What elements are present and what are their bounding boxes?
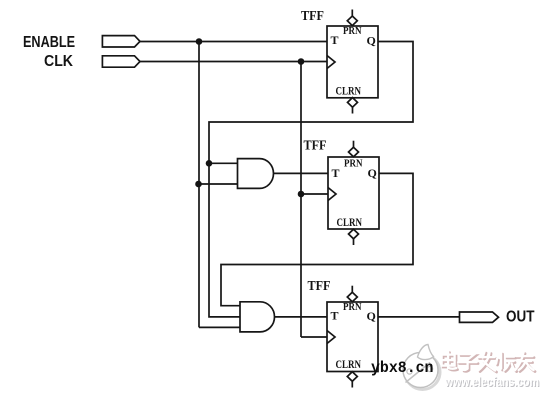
and-gate AND1	[238, 159, 274, 189]
U1 CLRN pin stub	[352, 107, 354, 113]
junction ENABLE/AND1	[195, 181, 202, 188]
wire Q2 feedback: right, down, left, down to AND2 upper input	[221, 173, 413, 305]
U2 PRN pin stub	[353, 141, 355, 148]
wire ENABLE branch to AND2 lower input	[199, 326, 240, 328]
U1 CLRN pin diamond	[348, 98, 358, 108]
svg-text:ENABLE: ENABLE	[23, 34, 75, 51]
svg-text:PRN: PRN	[343, 26, 362, 37]
svg-text:T: T	[331, 33, 339, 47]
svg-text:www.elecfans.com: www.elecfans.com	[444, 374, 539, 389]
svg-text:Q: Q	[368, 166, 377, 180]
U2 CLRN pin stub	[353, 239, 355, 245]
svg-text:Q: Q	[367, 34, 376, 48]
wire AND1 output to T of U2	[274, 172, 329, 174]
wire AND2 output to T of U3	[275, 316, 328, 318]
U3 clock chevron	[327, 331, 335, 344]
flip-flop U2 body	[328, 157, 379, 229]
wire ENABLE branch to AND1 lower input	[199, 183, 238, 185]
watermark chinese text white face	[442, 351, 534, 371]
U1 PRN pin diamond	[347, 16, 357, 26]
watermark logo ring left	[407, 369, 412, 374]
watermark logo slash	[406, 363, 431, 383]
svg-text:TFF: TFF	[308, 278, 331, 293]
svg-text:Q: Q	[367, 309, 376, 323]
wire CLK vertical bus	[300, 62, 302, 338]
svg-text:CLK: CLK	[44, 53, 73, 70]
U3 PRN pin stub	[351, 286, 353, 293]
wire CLK branch to clock of U2	[301, 193, 328, 195]
wire ENABLE horizontal to T of U1	[140, 41, 327, 43]
watermark chinese text shadow	[443, 353, 535, 373]
output connector OUT	[460, 312, 499, 322]
wire ENABLE vertical bus	[198, 42, 200, 328]
svg-text:OUT: OUT	[506, 309, 535, 326]
flip-flop U1 body	[327, 26, 378, 98]
watermark logo circle	[403, 353, 438, 388]
wire CLK branch to clock of U3	[301, 336, 327, 338]
input connector CLK	[102, 56, 140, 67]
junction ENABLE/U1	[196, 38, 203, 45]
wire Q3 to output connector	[378, 316, 460, 318]
U2 clock chevron	[328, 188, 336, 201]
watermark logo ring right	[427, 366, 432, 371]
junction CLK/U1	[298, 58, 305, 65]
watermark logo flame	[418, 345, 434, 360]
and-gate AND2	[240, 302, 275, 332]
input connector ENABLE	[102, 36, 140, 47]
U2 PRN pin diamond	[349, 147, 359, 157]
U1 PRN pin stub	[351, 10, 353, 17]
U3 PRN pin diamond	[347, 292, 357, 302]
U2 CLRN pin diamond	[349, 229, 359, 239]
svg-text:CLRN: CLRN	[337, 217, 363, 229]
svg-text:TFF: TFF	[301, 8, 324, 23]
svg-text:TFF: TFF	[304, 138, 327, 153]
wire Q1 feedback: right, down, left, down to AND gates	[209, 42, 413, 317]
wire Q1 branch to AND1 upper input	[209, 162, 238, 164]
svg-text:CLRN: CLRN	[336, 359, 362, 371]
svg-text:T: T	[332, 166, 340, 180]
U3 CLRN pin stub	[351, 381, 353, 387]
svg-text:T: T	[331, 309, 339, 323]
svg-text:PRN: PRN	[343, 302, 362, 313]
svg-text:ybx8.cn: ybx8.cn	[371, 359, 434, 377]
watermark logo circle shadow	[405, 355, 440, 390]
wire CLK horizontal to clock of U1	[140, 61, 327, 63]
junction CLK/U2	[298, 191, 305, 198]
U1 clock chevron	[327, 56, 335, 69]
junction Q1/AND1	[206, 160, 213, 167]
U3 CLRN pin diamond	[347, 372, 357, 382]
svg-text:CLRN: CLRN	[336, 86, 362, 98]
flip-flop U3 body	[327, 302, 378, 372]
svg-text:PRN: PRN	[344, 158, 363, 169]
